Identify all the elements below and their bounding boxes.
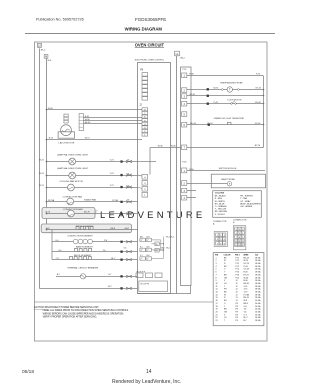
svg-text:7-8: 7-8 [127,173,130,175]
svg-text:14: 14 [216,294,218,296]
svg-text:18 GA: 18 GA [255,319,261,322]
lamp L1 symbol [69,158,76,165]
svg-text:18 GA: 18 GA [255,282,261,285]
svg-text:P12: P12 [236,260,239,262]
connector arrows bottom [120,287,122,289]
relay K1 pair [140,238,152,241]
svg-text:12: 12 [242,241,244,243]
svg-text:P8: P8 [236,320,238,322]
connector arrows lamp2 [120,174,122,176]
wire P12-2 temperature probe row [187,89,264,91]
relay aux box 1 [155,242,159,246]
svg-text:14 GA: 14 GA [255,311,261,314]
motor convection fan 2 symbol [68,210,75,217]
svg-text:J2: J2 [236,292,238,294]
connector arrows convection element [120,241,122,243]
svg-text:8: 8 [239,237,240,239]
splice door row [207,103,209,105]
connector P12 pin 7 [182,145,187,150]
svg-text:BK/W - BLACK/WHITE: BK/W - BLACK/WHITE [240,202,261,205]
wire pin tags left rows [127,159,130,213]
svg-text:DLB: DLB [146,255,149,257]
connector arrows bake [120,251,122,253]
connector P16 pin 1 [182,168,187,173]
svg-text:10: 10 [235,241,237,243]
svg-text:P12: P12 [236,266,239,268]
wire convection fan row [47,201,138,203]
svg-text:TEMPERATURE PROBE: TEMPERATURE PROBE [220,81,243,84]
svg-text:Publication No. 5995702726: Publication No. 5995702726 [36,18,84,22]
svg-text:14 GA: 14 GA [255,302,261,305]
svg-text:3: 3 [224,235,225,237]
svg-text:DLB: DLB [146,236,149,238]
svg-text:W-36: W-36 [244,277,248,279]
colors legend left column [215,195,228,216]
svg-text:J2: J2 [236,280,238,282]
svg-text:18 GA: 18 GA [255,265,261,268]
wire right bus [262,76,263,148]
svg-text:BU-76: BU-76 [84,211,91,213]
wire P12-4 door motor row [187,103,264,105]
wire L2 rail [39,49,41,289]
connector arrows grill [120,259,122,261]
svg-text:18 GA: 18 GA [255,285,261,288]
connector J1 pin strip [142,175,148,198]
svg-text:LATCH MOTOR: LATCH MOTOR [59,142,75,145]
svg-text:O-7: O-7 [244,314,247,316]
svg-text:7: 7 [217,243,218,245]
svg-text:P-43: P-43 [244,266,248,268]
resistor bake element [75,249,92,252]
outer diagram border [35,42,268,341]
connector A pin grid [214,232,227,247]
connector J2 pin numbers [144,110,146,137]
svg-text:P8: P8 [236,309,238,311]
wire internal vertical [149,147,151,174]
connector P12 pin 5 [182,112,187,117]
svg-text:18: 18 [216,306,218,308]
header rule [25,33,275,35]
svg-text:18 GA: 18 GA [255,268,261,271]
svg-text:N: N [45,55,47,59]
wire convection element row [52,241,137,243]
colors legend box [213,191,262,218]
svg-text:Y-74: Y-74 [244,286,248,288]
wire L2 bottom run [40,288,138,290]
wire lamp2 row [47,175,138,177]
switch door symbol [231,103,233,105]
thermostat symbol [227,123,231,125]
svg-text:3: 3 [216,263,217,265]
svg-text:P12: P12 [236,263,239,265]
svg-text:MEAT PROBE: MEAT PROBE [221,178,235,181]
svg-text:7: 7 [236,237,237,239]
svg-text:P16: P16 [236,272,239,274]
wire latch to J2 a [83,117,142,119]
svg-text:18 GA: 18 GA [255,291,261,294]
svg-text:DB: DB [155,244,157,246]
svg-text:WIRING ERRORS CAN CAUSE IMPROP: WIRING ERRORS CAN CAUSE IMPROPER AND DAN… [43,312,125,315]
svg-text:7-8: 7-8 [127,159,130,161]
connector P12 pin 2 [182,88,187,93]
connector J1 pin numbers [144,177,146,197]
svg-text:18 GA: 18 GA [255,279,261,282]
highlighted broil element box [41,224,131,233]
motor convection fan symbol [67,198,74,205]
connector P8 pin strip [142,73,148,101]
wire table box [213,253,264,326]
svg-text:1: 1 [236,229,237,231]
svg-text:B-7: B-7 [244,320,247,322]
svg-text:STABLE FAN: STABLE FAN [84,199,97,202]
relay K3 pair [140,257,152,260]
lamp L2 symbol [69,172,76,179]
svg-text:W-74: W-74 [244,260,248,262]
node L1 label [175,51,186,59]
svg-text:Rendered by LeadVenture, Inc.: Rendered by LeadVenture, Inc. [112,379,181,385]
svg-text:LAMP HALOGEN OVEN LIGHT: LAMP HALOGEN OVEN LIGHT [57,167,89,170]
svg-text:ELECTRONIC OVEN CONTROL: ELECTRONIC OVEN CONTROL [135,60,165,62]
svg-text:GN-4: GN-4 [161,248,165,250]
svg-text:BY-74: BY-74 [255,145,261,147]
svg-text:15: 15 [242,245,244,247]
svg-text:4: 4 [217,239,218,241]
svg-text:R-90: R-90 [244,272,248,274]
connector P12 pin 3 [182,94,187,99]
svg-text:20: 20 [216,312,218,314]
connector P12 pin 1 [182,73,187,78]
svg-text:O-6: O-6 [244,306,247,308]
connector arrows convection2 [120,213,122,215]
svg-text:18 GA: 18 GA [255,271,261,274]
svg-text:W-73A: W-73A [48,199,55,202]
wire broil element row [47,229,138,231]
wire table header [215,254,258,257]
svg-text:BK-36: BK-36 [244,283,249,285]
svg-text:J1: J1 [236,294,238,296]
svg-text:18 GA: 18 GA [255,293,261,296]
svg-text:L1: L1 [176,52,179,56]
svg-text:12: 12 [216,289,218,291]
svg-text:1: 1 [216,257,217,259]
connector P16 pin 3 [182,188,187,192]
svg-text:GY-35: GY-35 [189,94,195,96]
svg-text:18 GA: 18 GA [255,296,261,299]
svg-text:3: 3 [242,229,243,231]
svg-text:4: 4 [216,266,217,268]
wire table rows [216,256,262,322]
svg-text:W: W [224,260,226,262]
svg-text:14 GA: 14 GA [255,313,261,316]
svg-text:P16: P16 [236,277,239,279]
svg-text:1-8: 1-8 [127,211,130,213]
svg-text:J2: J2 [236,286,238,288]
svg-text:2: 2 [216,260,217,262]
wire convection fan 2 row [47,213,138,215]
svg-text:14 GA: 14 GA [255,305,261,308]
svg-text:BU-76: BU-76 [244,297,249,299]
svg-text:4: 4 [236,233,237,235]
svg-text:13: 13 [216,292,218,294]
svg-text:P-73A: P-73A [112,199,118,202]
wire P12-7 row [187,147,264,149]
wire bake element row [52,251,137,253]
svg-text:6: 6 [224,239,225,241]
splice temp probe row [207,88,209,90]
svg-text:3-8: 3-8 [127,199,130,201]
svg-text:18 GA: 18 GA [255,276,261,279]
svg-text:P12: P12 [236,257,239,259]
svg-text:LABEL ALL WIRES PRIOR TO DISCO: LABEL ALL WIRES PRIOR TO DISCONNECTION W… [43,309,130,312]
connector J2 pin strip [142,108,148,136]
svg-text:14 GA: 14 GA [255,308,261,311]
wire P16-3 stub [187,190,196,192]
svg-text:T-73: T-73 [244,292,248,294]
svg-text:P8: P8 [236,303,238,305]
relay K2 pair [140,248,152,251]
svg-text:J2: J2 [236,289,238,291]
svg-text:9: 9 [224,243,225,245]
svg-text:05/18: 05/18 [22,369,34,375]
svg-text:18 GA: 18 GA [255,262,261,265]
svg-text:W: W [224,294,226,296]
wire P12-1 row [187,75,263,77]
latch motor connector strip [79,114,83,131]
wire W-36 internal to P12-7 [150,147,181,149]
svg-text:10: 10 [216,283,218,285]
svg-text:T-6: T-6 [244,309,247,311]
svg-text:11: 11 [216,286,218,288]
svg-text:BK-1: BK-1 [140,236,144,238]
svg-text:21: 21 [216,314,218,316]
wire lamp1 row [47,161,138,163]
svg-text:CONNECTOR: CONNECTOR [213,221,227,223]
svg-text:J1: J1 [236,300,238,302]
svg-text:B-36: B-36 [244,280,248,282]
wire N rail [46,59,48,230]
svg-text:5-8: 5-8 [127,185,130,187]
wire P12-3 row [187,95,264,97]
svg-text:BL-7: BL-7 [244,317,248,319]
wire element bus vertical [51,230,53,260]
svg-text:T-74: T-74 [244,289,248,291]
svg-text:BK-34: BK-34 [244,257,249,259]
svg-text:6: 6 [242,233,243,235]
svg-text:7: 7 [216,274,217,276]
oven control board strip outline [181,67,192,286]
svg-text:18 GA: 18 GA [255,256,261,259]
svg-text:GY-74: GY-74 [255,87,261,89]
svg-text:P8: P8 [236,306,238,308]
meat probe box [211,174,265,188]
svg-text:P12: P12 [236,269,239,271]
svg-text:LAMP HALOGEN OVEN LIGHT: LAMP HALOGEN OVEN LIGHT [57,153,89,156]
svg-text:CONNECTOR: CONNECTOR [233,219,247,221]
svg-text:GY-74: GY-74 [244,263,249,265]
svg-text:6: 6 [216,272,217,274]
svg-text:14 GA: 14 GA [255,299,261,302]
svg-text:13: 13 [235,245,237,247]
svg-text:CONVECTION FAN: CONVECTION FAN [63,196,83,199]
svg-text:PIN 2: PIN 2 [235,255,240,257]
svg-text:18 GA: 18 GA [255,288,261,291]
svg-text:18 GA: 18 GA [255,259,261,262]
wire latch to J2 c [83,123,142,125]
svg-text:BK GN PLB: BK GN PLB [137,271,145,273]
svg-text:CAUTION:DISCONNECT POWER BEFOR: CAUTION:DISCONNECT POWER BEFORE SERVICIN… [34,306,99,309]
caution divider line [35,301,214,303]
svg-text:1: 1 [217,235,218,237]
svg-text:BK - BLACK: BK - BLACK [215,195,227,198]
svg-text:O - ORANGE: O - ORANGE [215,205,228,208]
svg-text:DLB: DLB [146,246,149,248]
svg-text:P-73A: P-73A [244,293,250,296]
svg-text:BY-43: BY-43 [255,102,261,104]
svg-text:COLORS: COLORS [215,193,225,195]
svg-text:5: 5 [239,233,240,235]
connector arrows breaker [120,275,122,277]
svg-text:BK-34: BK-34 [190,123,196,125]
svg-text:J2: J2 [236,283,238,285]
svg-text:5: 5 [216,269,217,271]
resistor grill element [70,257,92,260]
svg-text:8: 8 [220,243,221,245]
svg-text:P16: P16 [236,274,239,276]
wire latch to J2 b [83,120,142,122]
svg-text:LEADVENTURE: LEADVENTURE [100,210,205,221]
relay aux box 2 [155,248,159,252]
svg-text:THERMAL CIRCUIT BREAKER: THERMAL CIRCUIT BREAKER [67,267,98,270]
connector arrows cooling [120,186,122,188]
motor cooling fan symbol [68,184,75,191]
svg-text:FGDS3065PFE: FGDS3065PFE [135,17,166,22]
svg-text:15: 15 [216,297,218,299]
latch motor body [61,125,72,136]
splice thermostat row [208,124,210,126]
svg-text:GY-18: GY-18 [255,123,261,125]
svg-text:BR-8: BR-8 [244,303,248,305]
wire relay vertical b [160,240,162,250]
svg-text:COLOR: COLOR [224,255,231,257]
svg-text:19: 19 [216,309,218,311]
svg-text:14: 14 [146,369,152,375]
svg-text:Y-6: Y-6 [244,312,247,314]
latch motor terminal blocks [64,114,68,123]
fuse row boxes [136,273,162,278]
wire P16-4 stub [187,197,196,199]
svg-text:GY - GRAY: GY - GRAY [240,200,251,203]
highlighted convection fan box [42,208,95,219]
svg-text:2: 2 [239,229,240,231]
node L2 label [37,43,46,51]
svg-text:8: 8 [216,277,217,279]
connector P12 pin 4 [182,101,187,106]
connector arrows lamp1 [120,160,122,162]
svg-text:P8: P8 [236,312,238,314]
wire grill element row [52,259,137,261]
svg-text:VERIFY PROPER OPERATION AFTER: VERIFY PROPER OPERATION AFTER SERVICING. [43,316,98,319]
svg-text:14 GA: 14 GA [255,316,261,319]
svg-text:16: 16 [216,300,218,302]
svg-text:P8: P8 [236,314,238,316]
resistor broil element [76,227,93,230]
node N label [44,55,52,63]
latch motor wire W-36 top [47,109,143,111]
svg-text:BK-4: BK-4 [166,248,170,250]
svg-text:22: 22 [216,317,218,319]
connector B pin grid [233,226,246,250]
svg-text:L2: L2 [38,44,41,48]
svg-text:BY-74: BY-74 [244,274,249,276]
wire P16-1 switch module row [187,170,265,172]
svg-text:W-8: W-8 [244,300,247,302]
svg-text:R-1: R-1 [140,246,143,248]
wire L1 rail [176,56,178,294]
svg-text:T - TAN: T - TAN [240,197,247,200]
svg-text:J1: J1 [236,297,238,299]
svg-text:17: 17 [216,303,218,305]
wire relay stubs [151,240,163,259]
svg-text:BK-36: BK-36 [85,122,91,124]
electronic oven control box [138,63,171,294]
relay output box [139,281,168,292]
colors legend right column [240,196,261,208]
svg-text:9: 9 [216,280,217,282]
svg-text:18 GA: 18 GA [255,273,261,276]
svg-text:5: 5 [220,239,221,241]
svg-text:2: 2 [220,235,221,237]
wire latch bottom [47,139,143,141]
wire P16-2 meat probe row [187,183,227,185]
heater convection element coil [73,239,92,244]
connector P16 pin 2 [182,181,187,186]
wire P12-6 thermostat row [187,124,264,126]
svg-text:O-1: O-1 [140,255,143,257]
svg-text:V - VIOLET: V - VIOLET [215,214,226,216]
svg-text:WIRE: WIRE [244,255,250,257]
watermark logo chevron [89,210,98,218]
svg-text:GN - GREEN: GN - GREEN [240,206,252,208]
svg-text:OY-18: OY-18 [244,269,249,271]
svg-text:14: 14 [238,245,240,247]
probe meat symbol [227,182,231,186]
svg-text:BK-4: BK-4 [170,236,174,238]
wire thermal breaker row [56,276,137,278]
svg-text:BK L-PP PK: BK L-PP PK [141,284,151,286]
svg-text:11: 11 [239,241,241,243]
connector arrows convection1 [120,201,122,203]
svg-text:23: 23 [216,320,218,322]
svg-text:P8: P8 [236,317,238,319]
caution text block [34,306,129,319]
svg-text:COOLING FAN MOTOR: COOLING FAN MOTOR [59,180,83,183]
svg-text:DRAWER LED LIGHT THERMOSTAT: DRAWER LED LIGHT THERMOSTAT [214,117,245,120]
wire relay vertical a [162,237,164,259]
svg-text:9: 9 [242,237,243,239]
probe symbol [221,89,223,91]
svg-text:OVEN CIRCUIT: OVEN CIRCUIT [135,43,165,48]
wire cooling fan row [47,187,138,189]
wire board bottom link [138,286,191,294]
svg-text:CONVECTION ELEMENT: CONVECTION ELEMENT [67,236,93,238]
connector P12 pin 6 [182,122,187,127]
svg-text:WIRING DIAGRAM: WIRING DIAGRAM [125,27,163,32]
connector P16 pin 4 [182,195,187,200]
breaker thermal circuit breaker symbol [80,274,85,279]
svg-text:SWITCH MODULE: SWITCH MODULE [219,168,237,170]
